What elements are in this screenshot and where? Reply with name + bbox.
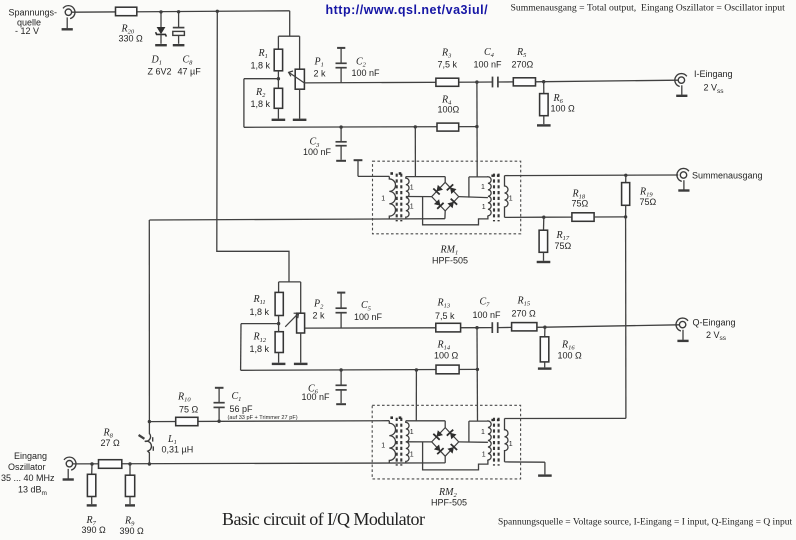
wire RM1 right corner to centre tap (459, 197, 488, 198)
wire junction to left branch (244, 78, 279, 80)
capacitor C1 (214, 388, 225, 421)
resistor R17 (539, 217, 548, 261)
wire RM1 lower output (505, 216, 544, 218)
wire RM2 ground drop (544, 462, 546, 474)
svg-text:Eingang: Eingang (14, 451, 47, 461)
label R5 270 (512, 47, 534, 70)
svg-text:1,8 k: 1,8 k (250, 307, 270, 317)
RM2 dashed enclosure (372, 405, 520, 479)
wire tee to P2 (300, 282, 302, 313)
RM1 right primary winding (505, 176, 509, 218)
RM1 right core (494, 174, 499, 222)
ground P1 (293, 119, 307, 121)
node L1-R10 tee (148, 420, 151, 423)
node output-R19 junction (624, 174, 627, 177)
connector I-Eingang (675, 74, 688, 96)
node R13-C7 junction (475, 326, 478, 329)
wire RM2 output to summing vertical (505, 417, 626, 419)
resistor R16 (540, 327, 549, 367)
svg-text:100 Ω: 100 Ω (558, 350, 583, 360)
wire R12 to ground (278, 353, 280, 363)
node R7 junction (90, 462, 93, 465)
label Eingang Oszillator (1, 451, 55, 497)
label C5 100nF (354, 300, 383, 322)
capacitor C7 (492, 322, 497, 333)
wire C7 node drop to RM2 right (476, 328, 479, 421)
wire I lower bus (244, 126, 477, 129)
wire R17 node to R18 (544, 216, 572, 218)
resistor R13 (436, 323, 461, 332)
svg-text:2 k: 2 k (313, 310, 326, 320)
resistor R14 (436, 365, 459, 374)
svg-text:75Ω: 75Ω (640, 197, 657, 207)
label R13 7,5k (435, 298, 455, 321)
node R3-C4 junction (475, 80, 478, 83)
label C4 100nF (474, 47, 503, 70)
wire RM2 right corner riser (468, 421, 470, 442)
wire left bias vertical Q (240, 324, 242, 371)
svg-text:100 nF: 100 nF (302, 392, 331, 402)
label R8 27 (101, 428, 121, 448)
diode ring RM2 (4 diodes) (432, 428, 459, 457)
svg-text:1: 1 (381, 442, 385, 449)
svg-text:75Ω: 75Ω (572, 199, 589, 209)
wire summing vertical to RM2 (625, 217, 627, 419)
svg-text:100Ω: 100Ω (438, 104, 460, 114)
svg-text:35 ... 40 MHz: 35 ... 40 MHz (1, 473, 55, 483)
resistor R18 (572, 213, 594, 222)
svg-text:1: 1 (410, 452, 414, 459)
wire RM2 left secondary top (406, 420, 445, 422)
wire C4 to R5 (498, 81, 513, 83)
wire oscillator line (73, 463, 445, 464)
label R17 75 (555, 230, 572, 251)
diode ring RM1 (4 diodes) (432, 182, 459, 211)
node L1 junction (148, 462, 151, 465)
svg-text:1,8 k: 1,8 k (251, 60, 271, 70)
svg-text:1: 1 (482, 452, 486, 459)
svg-text:1: 1 (381, 195, 385, 202)
capacitor C3 (336, 127, 347, 161)
RM1 dashed enclosure (373, 161, 521, 234)
resistor R5 (513, 78, 535, 86)
RM2 left secondary winding (406, 421, 409, 463)
node rail-D1 junction (159, 10, 162, 13)
svg-text:2 k: 2 k (314, 69, 327, 79)
resistor R20 (116, 7, 137, 16)
connector Eingang Oszillator (63, 457, 76, 479)
label R7 390 (82, 515, 107, 535)
wire rail drop to R1/P1 (289, 11, 291, 36)
svg-text:1: 1 (481, 429, 485, 436)
svg-text:0,31 µH: 0,31 µH (162, 445, 194, 455)
label Q-Eingang 2Vss (693, 318, 736, 343)
svg-text:1: 1 (509, 196, 513, 203)
ground R7 (87, 504, 97, 506)
svg-text:1: 1 (481, 184, 485, 191)
ground RM2 (538, 474, 552, 476)
svg-text:100 nF: 100 nF (354, 312, 383, 322)
wiper P1 arrow (289, 71, 305, 83)
svg-text:Q-Eingang: Q-Eingang (693, 318, 736, 328)
wire RM1 left secondary top (406, 176, 445, 178)
ground C8 (173, 44, 185, 46)
ground P2 (294, 363, 308, 365)
label P1 2k (314, 57, 327, 79)
label RM1 right primary 1 (509, 196, 513, 203)
svg-text:100 nF: 100 nF (303, 147, 332, 157)
svg-text:75 Ω: 75 Ω (179, 405, 199, 415)
wire rail to lower bias elbow (217, 11, 289, 282)
capacitor C5 (336, 293, 347, 328)
svg-text:390 Ω: 390 Ω (82, 525, 107, 535)
node R18-R19 junction (624, 215, 627, 218)
svg-text:1: 1 (410, 429, 414, 436)
node bus to RM1 left secondary (414, 125, 417, 128)
label RM1 left secondary 1 top (410, 185, 414, 192)
connector Q-Eingang (676, 318, 689, 341)
resistor R19 (622, 175, 630, 217)
wire junction to left branch Q (241, 323, 279, 325)
wire RM1 right secondary top (469, 176, 488, 178)
wire R5 to R6 node (536, 81, 544, 83)
svg-text:Summenausgang: Summenausgang (692, 170, 763, 180)
RM1 left core (397, 174, 402, 222)
wire RM1 diamond top riser (444, 177, 446, 183)
svg-text:Spannungs-: Spannungs- (9, 8, 58, 18)
node C1 junction (217, 420, 220, 423)
label R9 390 (120, 516, 145, 537)
capacitor C8 electrolytic (173, 12, 185, 44)
label R20 330 (119, 24, 144, 44)
label R4 100 (438, 94, 460, 114)
RM2 right phase dots (491, 419, 499, 421)
node bus-C7-vertical junction (476, 368, 479, 371)
node R17 junction (542, 216, 545, 219)
wire RM1 diamond bottom riser (444, 211, 446, 219)
wire to Q-Eingang (545, 325, 679, 327)
RM1 left primary winding (389, 176, 395, 218)
resistor R9 (125, 464, 134, 504)
wire RM1 dip link (423, 197, 488, 225)
resistor R15 (512, 323, 537, 331)
label C1 56pF (228, 391, 298, 421)
RM1 right secondary winding (488, 177, 491, 216)
label C2 100nF (352, 56, 381, 78)
ground R16 (538, 367, 552, 369)
inductor L1 (139, 422, 154, 464)
wire R11 to junction (278, 316, 280, 324)
wire P1 to ground (299, 89, 301, 118)
wire R1 to junction (277, 71, 279, 79)
label R6 100 (551, 93, 576, 114)
resistor R10 (176, 417, 198, 425)
svg-text:Spannungsquelle = Voltage sour: Spannungsquelle = Voltage source, I-Eing… (498, 518, 792, 528)
label C3 100nF (303, 137, 332, 157)
potentiometer P2 (297, 313, 305, 333)
ground R9 (125, 504, 135, 506)
resistor R11 (275, 292, 283, 315)
wire junction to C7 (477, 327, 492, 329)
resistor R7 (87, 464, 95, 504)
svg-text:1: 1 (509, 441, 513, 448)
wire R15 to R16 node (537, 326, 545, 328)
svg-text:HPF-505: HPF-505 (431, 497, 467, 507)
wire RM2 diamond bottom riser (444, 456, 446, 463)
svg-text:100 nF: 100 nF (352, 68, 381, 78)
RM2 left phase dots (390, 416, 401, 419)
label RM2 left secondary 1 top (410, 429, 414, 436)
label RM1 left secondary 1 bottom (410, 204, 414, 211)
node rail branch (216, 10, 219, 13)
label RM2 right secondary 1 top (481, 429, 485, 436)
label P2 2k (313, 298, 326, 320)
wire tee to P1 (299, 36, 301, 69)
label R11 1,8k (250, 294, 270, 317)
wire RM1 output to Summenausgang (505, 174, 679, 177)
svg-text:1: 1 (482, 204, 486, 211)
label R12 1,8k (250, 332, 270, 355)
label title (222, 509, 425, 529)
svg-text:100 nF: 100 nF (474, 60, 503, 70)
RM2 right core (494, 418, 499, 466)
label L1 0,31uH (162, 434, 194, 455)
svg-text:270Ω: 270Ω (512, 60, 534, 70)
RM2 left core (397, 418, 402, 466)
label RM2 right secondary 1 bottom (482, 452, 486, 459)
svg-text:47 µF: 47 µF (178, 67, 202, 77)
node R9 junction (128, 462, 131, 465)
wire long LO vertical (148, 220, 150, 422)
resistor R1 (274, 49, 282, 71)
RM2 right secondary winding (488, 421, 491, 460)
node bus-C3 junction (339, 125, 342, 128)
ground R6 (537, 124, 551, 126)
svg-text:270 Ω: 270 Ω (512, 308, 537, 318)
wire bus drop to RM2 left (415, 370, 417, 421)
wire P2 to ground (300, 333, 302, 363)
svg-text:7,5 k: 7,5 k (438, 60, 458, 70)
svg-text:http://www.qsl.net/va3iul/: http://www.qsl.net/va3iul/ (326, 3, 489, 17)
resistor R3 (436, 78, 459, 86)
wire Q lower bus (241, 368, 478, 371)
label RM1 HPF-505 (432, 256, 468, 266)
wire R11/P1 tee Q (279, 281, 301, 283)
wire R1R2 to R2 (277, 79, 279, 89)
wire RM1 bottom line to LO (149, 219, 445, 220)
label R2 1,8k (251, 87, 271, 109)
resistor R2 (274, 88, 282, 108)
wire stub to R11 (278, 282, 280, 293)
svg-text:1,8 k: 1,8 k (251, 99, 271, 109)
svg-text:390 Ω: 390 Ω (120, 526, 145, 536)
svg-text:1: 1 (410, 185, 414, 192)
svg-text:I-Eingang: I-Eingang (694, 69, 733, 79)
wire RM1 left secondary centre tap (406, 196, 432, 198)
wire R1/P1 tee (278, 35, 299, 37)
svg-text:100 Ω: 100 Ω (434, 351, 459, 361)
label C6 100nF (302, 383, 331, 402)
wire junction to C4 (477, 81, 493, 83)
node R5-R6 junction (542, 80, 545, 83)
svg-text:100 nF: 100 nF (473, 310, 502, 320)
label bottom legend (498, 518, 792, 528)
wire R2 to ground (277, 108, 279, 118)
connector J1 Spannungsquelle -12V (62, 6, 75, 30)
label R16 100 (558, 339, 583, 360)
wire RM2 diamond top riser (444, 421, 446, 428)
svg-text:Oszillator: Oszillator (8, 462, 46, 472)
ground D1 (155, 44, 167, 46)
resistor R4 (437, 123, 459, 131)
label R10 75 (177, 392, 199, 415)
label top legend (511, 3, 786, 14)
label RM1 right secondary 1 bottom (482, 204, 486, 211)
wire C4 node drop to RM1 right (476, 82, 478, 177)
wire R10 line to RM2 (149, 420, 389, 423)
node R11-R12 junction (277, 322, 280, 325)
svg-text:330 Ω: 330 Ω (119, 33, 144, 43)
node rail-C8 junction (177, 10, 180, 13)
wire RM2 right corner to centre tap (459, 441, 488, 443)
node R15-R16 junction (543, 326, 546, 329)
resistor R6 (540, 82, 549, 125)
svg-text:1: 1 (410, 204, 414, 211)
svg-text:56 pF: 56 pF (230, 404, 254, 414)
ground R2 (272, 119, 286, 121)
wire RM2 left secondary centre tap (406, 441, 432, 443)
wire top rail -12V (72, 11, 290, 12)
label R18 75 (572, 188, 589, 208)
label R15 270 (512, 296, 537, 319)
label RM2 left secondary 1 bottom (410, 452, 414, 459)
wire P1 wiper to C4 node (304, 81, 477, 84)
connector Summenausgang (677, 168, 690, 190)
label RM2 (438, 487, 457, 499)
label R3 7,5k (438, 47, 458, 69)
node R1-R2 junction (277, 77, 280, 80)
svg-text:(auf 33 pF + Trimmer 27 pF): (auf 33 pF + Trimmer 27 pF) (228, 415, 298, 421)
label Summenausgang (692, 170, 763, 180)
label RM1 right secondary 1 top (481, 184, 485, 191)
diode D1 zener (156, 12, 167, 44)
wire P2 wiper to C7 node (305, 327, 477, 329)
wire RM2 dip link (423, 442, 488, 470)
label R14 100 (434, 339, 459, 360)
label RM2 HPF-505 (431, 497, 467, 507)
capacitor C6 (336, 370, 347, 404)
wire stub to R1 (277, 36, 279, 49)
label D1 Z6V2 (148, 54, 172, 76)
potentiometer P1 (295, 69, 304, 89)
svg-text:Basic circuit of I/Q Modulator: Basic circuit of I/Q Modulator (222, 509, 425, 529)
label C7 100nF (473, 297, 502, 321)
label url (326, 3, 489, 17)
wiper P2 arrow (285, 313, 298, 327)
label I-Eingang 2Vss (694, 69, 733, 95)
label Spannungsquelle -12V (9, 8, 58, 36)
svg-text:75Ω: 75Ω (555, 241, 572, 251)
ground stub RM1 LO primary (354, 160, 390, 176)
label R1 1,8k (251, 48, 271, 70)
wire bus drop to RM1 left (414, 127, 416, 177)
RM1 left phase dots (390, 172, 401, 175)
label R19 75 (639, 186, 657, 207)
node bus-C4-vertical junction (475, 125, 478, 128)
svg-text:- 12 V: - 12 V (15, 26, 39, 36)
capacitor C4 (493, 77, 498, 88)
ground R17 (537, 261, 551, 263)
svg-text:27 Ω: 27 Ω (101, 438, 121, 448)
label RM1 left primary 1 (381, 195, 385, 202)
label C8 47uF (178, 54, 202, 76)
svg-text:Z 6V2: Z 6V2 (148, 67, 172, 77)
wire RM2 lower output (505, 461, 545, 463)
wire C7 to R15 (498, 326, 512, 328)
ground R12 (272, 363, 286, 365)
capacitor C2 (336, 48, 347, 83)
RM1 left secondary winding (406, 177, 409, 219)
resistor R12 (275, 332, 283, 353)
wire to I-Eingang (544, 80, 678, 82)
RM2 left primary winding (389, 421, 395, 463)
node bus to RM2 left secondary (415, 368, 418, 371)
label RM1 (440, 245, 459, 257)
wire RM2 right secondary top (469, 420, 488, 422)
node bus-C6 junction (339, 368, 342, 371)
svg-text:1,8 k: 1,8 k (250, 344, 270, 354)
wire R11R12 to R12 (278, 324, 280, 332)
label RM2 right primary 1 (509, 441, 513, 448)
svg-text:Summenausgang = Total output,: Summenausgang = Total output, Eingang Os… (511, 3, 786, 14)
svg-text:7,5 k: 7,5 k (435, 311, 455, 321)
wire R18 to R19 node (594, 216, 626, 218)
resistor R8 (99, 460, 122, 469)
svg-text:HPF-505: HPF-505 (432, 256, 468, 266)
svg-text:100 Ω: 100 Ω (551, 104, 576, 114)
wire RM1 right corner riser (468, 177, 470, 198)
wire left bias vertical (243, 79, 245, 128)
RM2 right primary winding (505, 419, 509, 462)
RM1 right phase dots (491, 175, 499, 177)
label RM2 left primary 1 (381, 442, 385, 449)
